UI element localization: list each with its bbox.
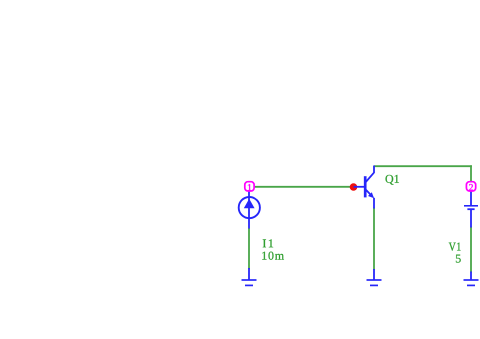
wire node1 to junction — [255, 186, 353, 188]
value 5 — [456, 255, 461, 263]
label V1 — [449, 243, 461, 251]
wire I1 bottom to ground — [248, 228, 250, 269]
label Q1 — [386, 175, 399, 185]
label I1 — [263, 239, 273, 247]
value 10m — [262, 252, 284, 260]
wire V1 bottom to ground — [470, 227, 472, 273]
wire emitter to ground — [373, 208, 375, 271]
ground under Q1 emitter — [367, 269, 382, 285]
node 1 marker — [245, 182, 254, 191]
ground under I1 — [242, 268, 257, 285]
current source I1 body — [239, 192, 260, 229]
node 2 marker — [466, 182, 475, 191]
junction dot — [350, 183, 358, 191]
wire top-right corner down to node 2 — [470, 165, 472, 181]
ground under V1 — [464, 272, 479, 286]
transistor Q1 — [354, 166, 375, 209]
wire collector top horizontal — [374, 165, 472, 167]
battery V1 body — [464, 192, 478, 228]
